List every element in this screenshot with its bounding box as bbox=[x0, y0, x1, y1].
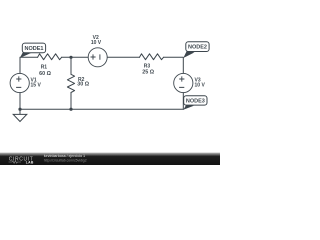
resistor R1 bbox=[38, 54, 62, 60]
svg-text:60 Ω: 60 Ω bbox=[39, 71, 51, 77]
svg-text:LAB: LAB bbox=[26, 160, 34, 164]
svg-text:NODE1: NODE1 bbox=[25, 46, 44, 52]
node NODE3 flag bbox=[183, 96, 207, 110]
resistor R2 labels bbox=[77, 77, 89, 88]
svg-text:10 V: 10 V bbox=[91, 40, 102, 46]
resistor R1 labels bbox=[39, 65, 51, 77]
svg-text:http://circuitlab.com/c5vk6g2: http://circuitlab.com/c5vk6g2 bbox=[44, 158, 87, 162]
svg-text:25 Ω: 25 Ω bbox=[142, 70, 154, 76]
junction node at R2/bottom bbox=[69, 108, 72, 111]
node NODE1 flag bbox=[20, 43, 46, 58]
resistor R3 labels bbox=[142, 64, 154, 76]
wire right-bottom segment bbox=[182, 93, 184, 110]
svg-text:kevinbarbosa / ejercicio 1: kevinbarbosa / ejercicio 1 bbox=[44, 154, 85, 158]
svg-text:15 V: 15 V bbox=[31, 82, 42, 88]
wire R1 to V2 bbox=[62, 56, 89, 58]
svg-text:NODE2: NODE2 bbox=[188, 45, 207, 51]
svg-text:NODE3: NODE3 bbox=[186, 99, 205, 105]
ground bbox=[13, 109, 27, 121]
junction node at R1/R2 bbox=[69, 56, 72, 59]
node NODE2 flag bbox=[183, 42, 209, 58]
wire top-right segment bbox=[164, 57, 184, 73]
watermark bar bbox=[0, 153, 220, 165]
wire top-left segment bbox=[20, 57, 38, 73]
wire V2 to R3 bbox=[107, 56, 139, 58]
svg-text:R1: R1 bbox=[41, 65, 48, 71]
svg-text:10 V: 10 V bbox=[195, 82, 206, 88]
resistor R2 bbox=[67, 74, 74, 92]
svg-text:30 Ω: 30 Ω bbox=[77, 82, 89, 88]
wire R2 top lead bbox=[70, 57, 72, 74]
resistor R3 bbox=[140, 54, 164, 60]
voltage source V1 bbox=[10, 73, 41, 92]
voltage source V3 bbox=[174, 73, 206, 92]
wire bottom rail bbox=[20, 108, 183, 110]
wire left-bottom segment bbox=[19, 93, 21, 110]
wire R2 bottom lead bbox=[70, 93, 72, 110]
voltage source V2 bbox=[88, 35, 107, 67]
junction node at ground bbox=[18, 108, 21, 111]
